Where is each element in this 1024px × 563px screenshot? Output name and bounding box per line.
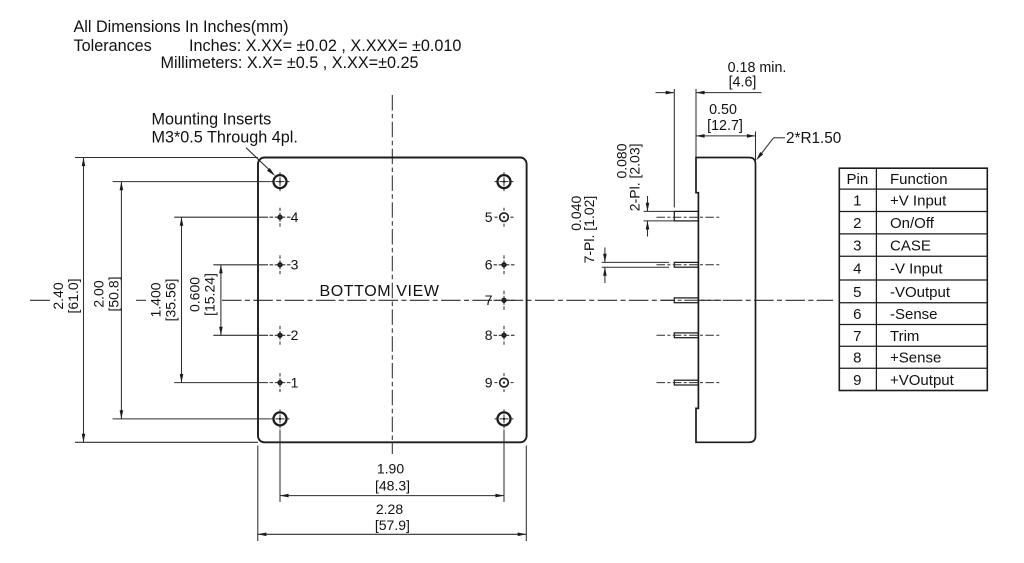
svg-text:2: 2 [291, 327, 299, 343]
svg-text:8: 8 [485, 327, 493, 343]
pin 3 [270, 264, 291, 266]
dimension 1.400 [35.56] pin rows 1-4 [174, 216, 268, 218]
svg-text:CASE: CASE [890, 238, 931, 255]
pin 7 [494, 299, 515, 301]
dimension 2.40 [61.0] overall height [75, 157, 258, 159]
pin 5 [495, 216, 514, 218]
horizontal centerline segment left of 1.400 text [136, 299, 146, 301]
svg-text:9: 9 [853, 372, 861, 389]
pin 8 [494, 334, 515, 336]
svg-text:3: 3 [853, 238, 861, 255]
svg-text:2: 2 [853, 215, 861, 232]
svg-text:[61.0]: [61.0] [65, 278, 81, 313]
svg-text:-VOutput: -VOutput [890, 284, 951, 301]
svg-text:9: 9 [485, 375, 493, 391]
svg-text:Trim: Trim [890, 328, 919, 345]
dimension 0.040 [1.02] 7-Pl pin thickness [602, 261, 669, 263]
svg-text:0.50: 0.50 [709, 102, 737, 118]
svg-text:1.400: 1.400 [148, 282, 164, 317]
svg-text:6: 6 [853, 306, 861, 323]
svg-text:7-Pl. [1.02]: 7-Pl. [1.02] [581, 196, 597, 264]
pin 9 [495, 382, 514, 384]
svg-text:[15.24]: [15.24] [201, 273, 217, 316]
svg-text:[50.8]: [50.8] [105, 276, 121, 311]
svg-text:On/Off: On/Off [890, 215, 935, 232]
svg-text:Millimeters: X.X= ±0.5 , X.XX=: Millimeters: X.X= ±0.5 , X.XX=±0.25 [161, 54, 419, 72]
horizontal centerline segments left of 2.40 text [30, 299, 50, 301]
svg-text:[57.9]: [57.9] [375, 517, 410, 533]
svg-text:+VOutput: +VOutput [890, 372, 955, 389]
svg-text:-V Input: -V Input [890, 261, 943, 278]
svg-text:All Dimensions In Inches(mm): All Dimensions In Inches(mm) [74, 18, 289, 36]
svg-text:+V Input: +V Input [890, 193, 947, 210]
svg-text:1: 1 [291, 375, 299, 391]
svg-text:Inches: X.XX= ±0.02 , X.XXX= ±: Inches: X.XX= ±0.02 , X.XXX= ±0.010 [189, 37, 461, 55]
svg-text:[35.56]: [35.56] [162, 279, 178, 322]
svg-text:4: 4 [291, 209, 299, 225]
pin 4 [270, 216, 291, 218]
svg-text:2.00: 2.00 [91, 280, 107, 307]
dimension 2.28 [57.9] overall width [257, 446, 259, 542]
pin function table grid [839, 168, 987, 390]
dimension 2.00 [50.8] hole spacing vertical [113, 181, 271, 183]
svg-text:7: 7 [853, 328, 861, 345]
svg-text:8: 8 [853, 350, 861, 367]
svg-text:2-Pl. [2.03]: 2-Pl. [2.03] [626, 144, 642, 212]
svg-text:M3*0.5 Through 4pl.: M3*0.5 Through 4pl. [152, 129, 298, 147]
mounting hole top-right [495, 181, 514, 183]
svg-text:6: 6 [485, 257, 493, 273]
dimension 0.18 min [4.6] pin standoff [673, 89, 675, 208]
svg-text:[12.7]: [12.7] [707, 118, 743, 134]
svg-text:+Sense: +Sense [890, 350, 941, 367]
svg-text:[4.6]: [4.6] [729, 75, 757, 91]
svg-text:2.28: 2.28 [376, 501, 403, 517]
dimension 0.50 [12.7] case width [755, 132, 757, 162]
svg-text:5: 5 [853, 284, 861, 301]
svg-text:7: 7 [485, 292, 493, 308]
mounting hole top-left [271, 181, 290, 183]
module outline side view [696, 158, 756, 443]
svg-text:5: 5 [485, 209, 493, 225]
dimension 1.90 [48.3] hole spacing horizontal [279, 430, 281, 503]
pin 1 [270, 382, 291, 384]
side pin row 1 (0.080 thick) [674, 211, 698, 221]
dimension 0.600 [15.24] pin rows 2-3 [213, 264, 268, 266]
svg-text:1.90: 1.90 [377, 461, 404, 477]
mounting hole bottom-left [271, 418, 290, 420]
horizontal centerline main run [222, 299, 833, 301]
side pin row 2 (0.040 thick) [674, 262, 698, 267]
svg-text:2.40: 2.40 [50, 282, 66, 309]
side pin row 3 (on main centerline) [674, 298, 698, 303]
svg-text:BOTTOM VIEW: BOTTOM VIEW [319, 283, 439, 300]
svg-text:2*R1.50: 2*R1.50 [786, 130, 841, 147]
vertical centerline of bottom view [391, 95, 393, 454]
svg-text:Mounting Inserts: Mounting Inserts [152, 111, 272, 129]
pin 2 [270, 334, 291, 336]
svg-text:0.600: 0.600 [187, 277, 203, 312]
svg-text:0.18 min.: 0.18 min. [728, 60, 787, 76]
leader line from mounting note to top-left hole [246, 148, 270, 171]
note 2*R1.50 corner radius with leader [774, 137, 786, 139]
svg-text:Pin: Pin [847, 171, 869, 188]
svg-text:[48.3]: [48.3] [375, 478, 410, 494]
svg-text:-Sense: -Sense [890, 306, 938, 323]
svg-text:Tolerances: Tolerances [74, 37, 152, 55]
side pin row 5 [674, 380, 698, 385]
dimension 0.080 [2.03] 2-Pl pin thickness [644, 210, 675, 212]
mounting hole bottom-right [495, 418, 514, 420]
svg-text:4: 4 [853, 261, 861, 278]
side pin row 4 [674, 333, 698, 338]
pin 6 [494, 264, 515, 266]
module outline bottom view [258, 158, 527, 443]
svg-text:Function: Function [890, 171, 948, 188]
svg-text:1: 1 [853, 193, 861, 210]
svg-text:3: 3 [291, 257, 299, 273]
